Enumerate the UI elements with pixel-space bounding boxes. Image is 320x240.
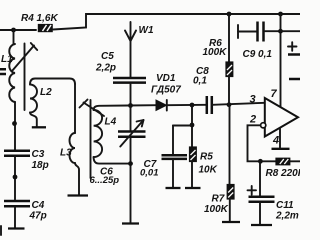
ground C4 — [8, 227, 25, 229]
svg-text:L1: L1 — [1, 54, 13, 65]
resistor R6 — [226, 62, 233, 77]
capacitor C5 — [113, 78, 146, 83]
capacitor fragment left edge — [0, 69, 6, 74]
wire R7 to ground — [229, 199, 231, 221]
diode VD1 — [156, 100, 167, 111]
wire diode to C8 — [167, 104, 207, 106]
svg-text:7: 7 — [271, 88, 278, 100]
svg-text:3: 3 — [250, 94, 256, 106]
node rail/R6 — [227, 12, 232, 17]
svg-text:R4 1,6K: R4 1,6K — [21, 13, 58, 24]
wire supply column — [280, 14, 282, 111]
svg-text:L4: L4 — [105, 117, 117, 128]
svg-text:6...25p: 6...25p — [90, 175, 120, 186]
node rail/supply — [278, 12, 283, 17]
plus sign C11 — [248, 186, 257, 195]
wire C11 top — [259, 161, 261, 195]
ground R7 — [222, 221, 240, 223]
wire C8 to opamp — [213, 103, 265, 105]
wire C7 to ground — [172, 160, 174, 187]
wire supply to edge — [281, 30, 301, 32]
svg-text:R7: R7 — [212, 194, 225, 205]
ground L2 — [32, 126, 46, 128]
ground C6 — [122, 222, 139, 224]
ground R5 — [185, 187, 201, 189]
svg-text:C4: C4 — [32, 200, 45, 211]
wire R8 to edge — [291, 160, 301, 162]
inductor L4 — [94, 110, 103, 157]
wire left feed to R4 — [0, 29, 36, 31]
svg-text:4: 4 — [272, 135, 279, 147]
svg-text:ГД507: ГД507 — [151, 85, 181, 96]
svg-text:2,2m: 2,2m — [275, 211, 299, 222]
wire C7 tee — [173, 125, 192, 127]
node bus/R6R7 — [227, 102, 232, 107]
wire R5 to ground — [191, 162, 193, 188]
capacitor C10 fragment — [288, 42, 300, 79]
edge mark bottom-left — [0, 226, 2, 235]
node bus/R5 — [190, 103, 195, 108]
svg-text:C9 0,1: C9 0,1 — [243, 49, 273, 60]
inductor L3 — [70, 84, 80, 195]
svg-text:0,1: 0,1 — [193, 76, 207, 87]
arrow L4 adjustable — [80, 100, 105, 117]
capacitor C4 — [4, 201, 30, 206]
core L1/L2 — [24, 44, 26, 111]
wire C5 to bus — [130, 84, 132, 105]
svg-text:L3: L3 — [60, 148, 72, 159]
wire pin2 feedback — [248, 125, 277, 161]
svg-text:100K: 100K — [203, 47, 228, 58]
capacitor C7 — [162, 155, 188, 159]
capacitor C3 — [4, 151, 30, 156]
wire pin4 — [279, 128, 281, 148]
ground C11 — [251, 224, 272, 226]
svg-text:W1: W1 — [139, 25, 154, 36]
node C3/C4 — [13, 175, 18, 180]
bus wire tank to diode — [94, 105, 156, 110]
ground pin4 — [272, 148, 290, 150]
svg-text:47p: 47p — [29, 211, 47, 222]
wire L4 bottom — [94, 157, 131, 164]
wire C3 to C4 — [14, 157, 16, 200]
capacitor C6 variable — [118, 106, 146, 147]
capacitor C11 — [249, 197, 275, 202]
wire C4 to ground — [14, 208, 16, 228]
svg-text:2,2p: 2,2p — [95, 63, 116, 74]
wire R5 branch — [191, 105, 193, 147]
node C6/L4 — [128, 161, 133, 166]
node bus/C5 column — [128, 103, 133, 108]
wire C11 to ground — [259, 203, 261, 224]
pin 2 circle — [261, 123, 266, 128]
wire L1 bottom to C3 — [14, 102, 16, 150]
ground C7 — [166, 187, 181, 189]
capacitor C8 — [207, 96, 212, 114]
svg-text:L2: L2 — [40, 87, 52, 98]
node C9/supply — [278, 29, 283, 34]
resistor R4 — [38, 25, 52, 32]
wire R7 top — [229, 105, 231, 185]
ground L3 — [68, 194, 89, 196]
inductor L1 — [9, 30, 15, 102]
inductor L2 — [30, 79, 75, 127]
node R5/C7 — [190, 123, 195, 128]
svg-text:VD1: VD1 — [156, 73, 176, 84]
arrow L1 adjustable — [12, 43, 37, 71]
resistor R7 — [227, 185, 234, 200]
resistor R8 — [276, 158, 290, 165]
node feedback/C11 — [258, 159, 263, 164]
wire R4 to top rail — [53, 14, 300, 30]
svg-text:C3: C3 — [32, 149, 45, 160]
wire R6 top — [228, 14, 230, 62]
node L1/C3 — [12, 121, 17, 126]
svg-text:2: 2 — [249, 114, 256, 126]
svg-text:10K: 10K — [199, 165, 218, 176]
wire C7 top — [172, 126, 174, 155]
resistor R5 — [190, 147, 197, 162]
op-amp U1 — [265, 98, 298, 137]
antenna W1 — [125, 22, 136, 77]
node junction R4/L1 — [11, 28, 16, 33]
svg-text:100K: 100K — [204, 204, 229, 215]
wire R6 bottom — [228, 77, 230, 106]
svg-text:0,01: 0,01 — [140, 168, 159, 179]
svg-text:C5: C5 — [101, 51, 114, 62]
svg-text:C11: C11 — [276, 200, 294, 211]
svg-text:R5: R5 — [200, 152, 213, 163]
core L3/L4 — [90, 100, 92, 178]
svg-text:18p: 18p — [32, 160, 49, 171]
svg-text:R8 220K: R8 220K — [266, 168, 301, 179]
wire C6 to ground — [130, 138, 132, 223]
capacitor C9 — [238, 22, 281, 42]
